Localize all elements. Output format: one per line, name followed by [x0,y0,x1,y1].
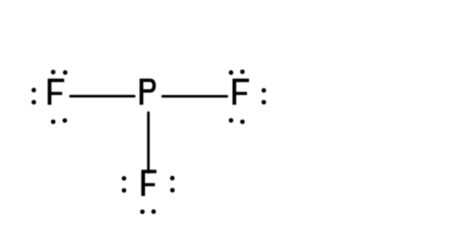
atom P (phosphorus) [140,79,156,105]
bond F1-P [69,95,135,98]
atom F1 (left fluorine) [48,79,64,105]
atom F2 (right fluorine) [233,79,250,105]
lone pair F3 left [122,176,127,193]
lone pair F2 bottom [229,118,245,124]
lone pair F1 top [51,70,68,75]
lone pair F3 bottom [140,209,156,214]
lone pair F1 bottom [51,118,67,124]
bond P-F2 [161,95,228,98]
lone pair F2 top [229,70,245,75]
lone pair F1 left [32,88,37,105]
lone pair F3 right [170,176,175,193]
bond P-F3 (vertical) [147,111,150,173]
lone pair F2 right [262,88,267,104]
atom F3 (bottom fluorine) [141,170,156,196]
